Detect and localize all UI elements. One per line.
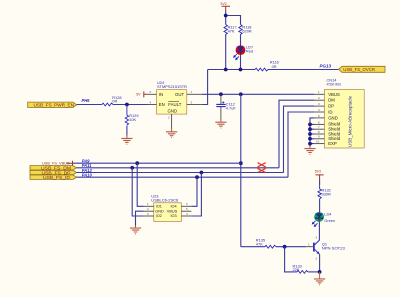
svg-text:NPN SOT23: NPN SOT23	[322, 246, 345, 251]
resistor R128	[102, 95, 122, 106]
svg-text:620R: 620R	[242, 29, 251, 34]
pin 3 IO2	[144, 215, 154, 217]
resistor R133	[290, 263, 308, 273]
wire riser DP to CN14 pin3	[284, 106, 315, 172]
wire IO4 up to ID wire	[191, 177, 197, 206]
pin 4 EN	[148, 104, 157, 106]
pin 3 FAULT	[187, 104, 202, 106]
svg-text:GND: GND	[168, 109, 178, 114]
LED LD7 Red	[234, 45, 253, 60]
svg-text:47K: 47K	[228, 29, 235, 34]
wire 5V2 node to R117/R118 tops	[226, 16, 241, 25]
ground below Q1	[314, 272, 325, 285]
svg-text:5V: 5V	[136, 93, 141, 97]
wire Q1 emitter to ground node	[319, 254, 321, 272]
svg-text:USBLC6-2SC6: USBLC6-2SC6	[151, 198, 178, 203]
wire VBUS riser (x=240.8)	[240, 94, 242, 246]
pin 2 DM	[314, 99, 324, 101]
transistor Q1 NPN SOT23	[306, 235, 345, 260]
wire R135 to Q1 base	[276, 246, 306, 248]
svg-text:USB_FS_PWR_EN: USB_FS_PWR_EN	[34, 102, 75, 107]
svg-text:EN: EN	[159, 102, 165, 107]
svg-text:10: 10	[316, 140, 320, 144]
wire IO3 up to DP wire	[191, 173, 201, 217]
ground below CN14 shield bus	[304, 146, 315, 154]
wire VBUS riser corner to R135	[241, 246, 265, 248]
ground below U24	[166, 128, 177, 138]
pin 5 VBUS	[181, 210, 191, 212]
port USB_FS_OVCR	[339, 66, 385, 72]
svg-text:USB_Micro-ABreceptacle: USB_Micro-ABreceptacle	[348, 95, 353, 147]
resistor R117	[224, 24, 237, 36]
no-ERC marker upper	[258, 163, 266, 167]
wire PA9 to IO1	[137, 163, 144, 206]
wire riser DM to CN14 pin2	[279, 100, 314, 168]
svg-text:VBUS: VBUS	[167, 209, 178, 213]
svg-text:VBUS: VBUS	[328, 92, 340, 97]
svg-text:USB_FS_ID: USB_FS_ID	[43, 175, 70, 180]
wire R132 to LD4	[319, 199, 321, 212]
svg-text:4.7uF: 4.7uF	[226, 105, 237, 110]
junction U23 IO3 tee	[200, 171, 204, 175]
svg-text:FAULT: FAULT	[168, 102, 181, 107]
junction shield 1	[308, 123, 312, 127]
junction U23 IO1 tee	[135, 161, 139, 165]
pin 5 GND	[314, 117, 324, 119]
wire R133 to emitter node	[308, 271, 320, 273]
port USB_FS_DM	[30, 166, 77, 171]
capacitor C112	[216, 94, 236, 120]
ESD U23 USBLC6-2SC6	[144, 194, 192, 222]
wire R118 to LED LD7	[240, 35, 242, 45]
wire R128 to EN pin	[113, 104, 148, 106]
junction U23 IO2 tee	[130, 166, 134, 170]
svg-text:IO1: IO1	[156, 205, 162, 209]
svg-text:5V3: 5V3	[315, 170, 321, 174]
pin 6 Shield	[314, 123, 324, 125]
wire port to R128	[77, 104, 102, 106]
ground below C112	[215, 119, 226, 129]
svg-text:330R: 330R	[322, 191, 331, 196]
wire R116 to port USB_FS_OVCR	[268, 69, 339, 71]
port USB_FS_DP	[30, 170, 77, 175]
svg-text:STMPS2151STR: STMPS2151STR	[157, 84, 187, 89]
junction EN node	[125, 103, 129, 107]
wire PA12	[77, 172, 284, 174]
pin 1 IO1	[144, 205, 154, 207]
svg-text:PH5: PH5	[82, 98, 91, 103]
svg-text:0R: 0R	[272, 64, 277, 69]
wire fault bus horizontal	[208, 69, 255, 71]
pin 9 Shield	[314, 138, 324, 140]
svg-text:Red: Red	[246, 49, 253, 54]
power 5V2 top	[221, 2, 231, 15]
resistor R132	[318, 185, 331, 198]
svg-text:PG13: PG13	[320, 64, 332, 69]
port USB_FS_PWR_EN	[28, 102, 77, 107]
pin 2 GND	[144, 210, 154, 212]
svg-text:IN: IN	[159, 92, 163, 97]
svg-text:GND: GND	[328, 115, 338, 120]
junction R117/bus	[224, 68, 228, 72]
svg-text:IO4: IO4	[171, 205, 177, 209]
pin 1 OUT	[187, 93, 202, 95]
junction emitter node	[318, 270, 322, 274]
junction base node	[283, 245, 287, 249]
wire LD4 to Q1 collector	[318, 222, 320, 240]
svg-text:IO2: IO2	[156, 214, 162, 218]
wire LD7 to fault bus	[240, 55, 242, 69]
svg-text:IO3: IO3	[171, 214, 177, 218]
junction shield 2	[308, 127, 312, 131]
resistor R118	[239, 24, 252, 36]
svg-text:5V2: 5V2	[221, 2, 227, 6]
wire U23 GND to ground	[136, 211, 144, 227]
wire riser ID to CN14 pin4	[288, 112, 314, 177]
pin 7 Shield	[314, 128, 324, 130]
junction VBUS riser	[239, 92, 243, 96]
wire FAULT to bus riser	[202, 70, 208, 105]
pin 10 EXP	[314, 143, 324, 145]
ground below U23	[130, 226, 141, 234]
svg-text:ID: ID	[328, 110, 332, 115]
wire shield stubs	[310, 124, 314, 143]
port USB_FS_ID	[30, 175, 77, 180]
wire OUT to CN14 VBUS	[202, 93, 314, 95]
svg-text:0R: 0R	[112, 99, 117, 104]
svg-text:EXP: EXP	[328, 141, 337, 146]
wire R129 to ground	[126, 126, 128, 137]
pin 4 ID	[314, 111, 324, 113]
wire R117 bottom to fault bus	[225, 35, 227, 69]
wire PA11	[77, 167, 279, 169]
pin 4 IO3	[181, 215, 191, 217]
svg-text:OUT: OUT	[175, 92, 184, 97]
svg-text:LD4: LD4	[324, 211, 332, 216]
junction shield 3	[308, 132, 312, 136]
junction R118/bus	[239, 68, 243, 72]
junction C112 top	[219, 92, 223, 96]
ground below R129	[121, 135, 132, 145]
resistor R116	[255, 60, 279, 71]
power 5V3 right	[315, 170, 324, 186]
power port USB_FS_VBUS	[42, 161, 73, 166]
svg-text:47590-0001: 47590-0001	[327, 82, 342, 87]
junction shield 4	[308, 137, 312, 141]
pin 6 IO4	[181, 205, 191, 207]
op-amp U24 STMPS2151STR power switch	[148, 80, 202, 128]
pin 5 IN	[148, 93, 157, 95]
LED LD4 Green	[312, 211, 335, 226]
svg-text:USB_FS_OVCR: USB_FS_OVCR	[343, 67, 375, 72]
pin 1 VBUS	[314, 93, 324, 95]
svg-text:47K: 47K	[256, 241, 263, 246]
power 5V at U24 IN	[136, 91, 147, 97]
resistor R129	[125, 105, 138, 126]
svg-text:GND: GND	[155, 209, 164, 213]
pin 3 DP	[314, 105, 324, 107]
junction at 5V2 node	[224, 14, 228, 18]
junction U23 IO4 tee	[195, 175, 199, 179]
resistor R135	[256, 238, 276, 249]
wire PA9	[73, 162, 241, 164]
svg-text:DM: DM	[328, 98, 335, 103]
wire base node down to R133	[285, 247, 290, 272]
wire GND pin to shield bus	[310, 118, 314, 148]
junction EXP	[308, 142, 312, 146]
connector CN14 USB Micro-AB	[314, 77, 364, 148]
wire PA11 to IO2	[132, 168, 144, 216]
wire PA10	[77, 176, 288, 178]
pin 2 GND	[171, 114, 173, 128]
junction PA9 tee	[239, 161, 243, 165]
pin 8 Shield	[314, 133, 324, 135]
svg-text:Green: Green	[324, 218, 335, 223]
svg-text:DP: DP	[328, 104, 334, 109]
svg-text:10K: 10K	[129, 117, 136, 122]
no-ERC marker lower	[258, 168, 266, 172]
